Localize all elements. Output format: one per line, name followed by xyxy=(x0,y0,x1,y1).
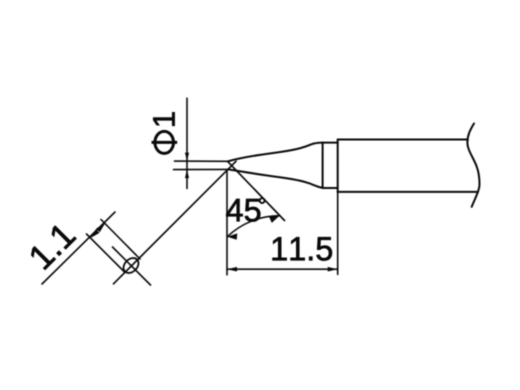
phi1 extension line bottom xyxy=(174,168,229,170)
tip top contour xyxy=(228,143,323,162)
face ellipse xyxy=(121,255,142,276)
1.1 extension line lower xyxy=(87,234,125,272)
1.1 extension line upper xyxy=(101,220,140,260)
collar top edge xyxy=(323,142,338,144)
label 11.5 xyxy=(273,237,332,260)
ellipse centerline perpendicular xyxy=(113,247,151,285)
leader line to face ellipse xyxy=(114,161,237,283)
collar left edge xyxy=(322,143,324,188)
label phi1: phi symbol bar xyxy=(152,141,178,144)
arrow arc bottom (left-pointing) xyxy=(227,233,237,239)
arrow 1.1 lower (down-left) xyxy=(91,229,100,238)
label 45deg digits xyxy=(226,199,260,222)
cylinder bottom edge xyxy=(338,191,478,193)
phi1 dimension line vertical xyxy=(186,98,188,188)
arrow 1.1 upper (up-right) xyxy=(96,224,105,233)
label 1.1 xyxy=(28,222,76,270)
label phi1: digit 1 xyxy=(153,112,174,125)
arrow phi1 bottom (up) xyxy=(185,170,189,179)
arrow arc upper (up-right-pointing) xyxy=(269,216,279,223)
bevel edge line 45deg xyxy=(228,161,285,220)
label phi1: phi symbol circle xyxy=(155,131,174,153)
arrow 11.5 right xyxy=(328,267,338,272)
break wave line xyxy=(467,124,479,207)
phi1 extension line top xyxy=(175,160,228,162)
label 45deg degree circle xyxy=(260,198,265,203)
collar bottom edge xyxy=(323,187,338,189)
11.5 dimension line xyxy=(227,268,338,270)
tip bottom contour xyxy=(228,169,322,188)
45deg angle arc xyxy=(227,216,279,237)
cylinder left edge xyxy=(337,140,339,193)
cylinder top edge xyxy=(338,139,468,141)
arrow phi1 top (down) xyxy=(185,153,189,162)
1.1 dimension line diagonal xyxy=(42,212,115,284)
11.5 extension line right xyxy=(337,192,339,274)
arrow 11.5 left xyxy=(227,267,237,272)
11.5 extension line left xyxy=(226,170,228,275)
